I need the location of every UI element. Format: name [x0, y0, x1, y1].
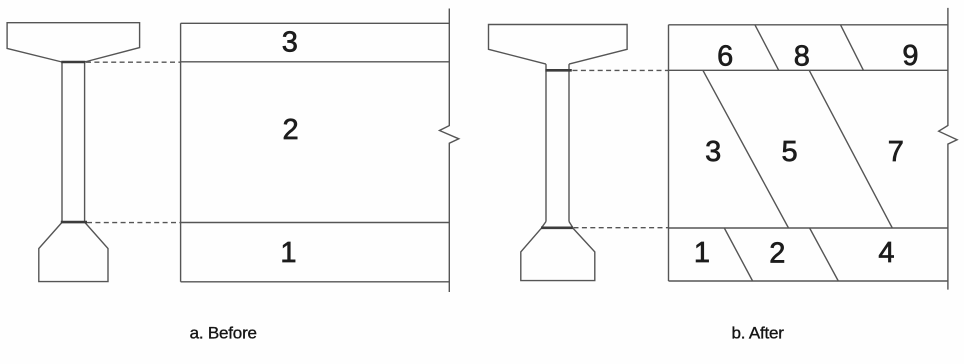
svg-text:7: 7: [888, 136, 904, 168]
svg-text:b. After: b. After: [731, 323, 784, 342]
svg-text:3: 3: [705, 136, 721, 168]
svg-text:6: 6: [717, 41, 733, 73]
svg-text:2: 2: [283, 114, 299, 146]
svg-text:3: 3: [282, 26, 298, 58]
svg-text:1: 1: [280, 237, 296, 269]
svg-text:2: 2: [769, 238, 785, 270]
svg-text:1: 1: [694, 237, 710, 269]
svg-text:8: 8: [794, 41, 810, 73]
svg-text:4: 4: [878, 237, 894, 269]
svg-text:9: 9: [902, 40, 918, 72]
svg-text:5: 5: [782, 136, 798, 168]
svg-text:a. Before: a. Before: [190, 323, 257, 342]
